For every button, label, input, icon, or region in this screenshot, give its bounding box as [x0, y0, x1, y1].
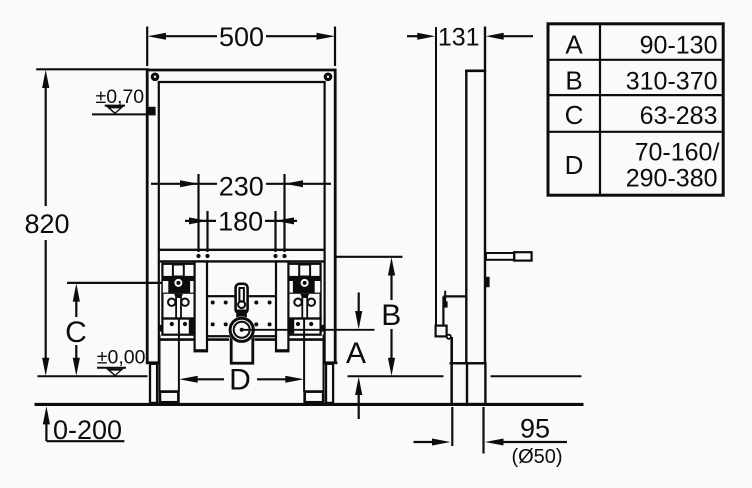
svg-text:D: D [565, 150, 584, 180]
right slide rail [276, 262, 288, 352]
datum line ±0,00 right segment [491, 375, 582, 377]
side view leg box [452, 363, 486, 404]
side view tube top cap [465, 70, 486, 73]
dimension 230 [151, 172, 331, 253]
screw hole top left [151, 73, 160, 82]
svg-text:230: 230 [219, 172, 264, 202]
drain pipe [231, 336, 253, 363]
mounting plate [205, 296, 278, 336]
svg-text:D: D [229, 363, 251, 396]
svg-text:500: 500 [219, 22, 264, 52]
tensioner [236, 284, 248, 318]
side view tube left edge [465, 70, 467, 364]
dimension 0-200 bottom left [43, 406, 125, 445]
svg-text:0-200: 0-200 [53, 415, 122, 445]
frame right tube inner [324, 82, 326, 364]
floor line [35, 403, 584, 406]
datum line ±0,00 middle segment [348, 375, 444, 377]
dimension A [346, 293, 366, 420]
datum line ±0,00 left segment [38, 375, 148, 377]
drain centerline [242, 329, 375, 331]
svg-text:820: 820 [24, 209, 69, 239]
svg-text:70-160/: 70-160/ [635, 138, 720, 166]
dimension 95 [414, 407, 568, 468]
dimension D [179, 363, 304, 396]
side view leg divider [466, 363, 468, 404]
side view bracket top line [443, 295, 466, 297]
frame top rail outer [146, 69, 336, 72]
level mark ±0,70 [92, 86, 147, 115]
level mark ±0,00 [97, 346, 146, 376]
svg-text:63-283: 63-283 [640, 102, 718, 130]
right foot [305, 392, 324, 403]
svg-text:290-380: 290-380 [626, 165, 718, 193]
right bracket body [287, 264, 324, 392]
side view bracket cross tick [444, 291, 446, 306]
side view crossbar end cap [514, 252, 531, 260]
side view crossbar stub [486, 253, 514, 260]
svg-text:180: 180 [218, 206, 263, 236]
left bracket body [159, 264, 196, 392]
svg-text:131: 131 [438, 24, 480, 52]
lower member line [159, 338, 325, 341]
svg-text:A: A [565, 30, 583, 60]
dimension 180 [185, 206, 297, 252]
svg-text:B: B [565, 66, 582, 96]
left tube end cap [146, 361, 160, 364]
right leg [326, 364, 333, 403]
dimension B [337, 257, 403, 376]
side view bracket circle [447, 335, 451, 339]
svg-text:C: C [65, 316, 87, 349]
frame top rail inner [158, 81, 326, 83]
dimension 500 top [147, 22, 335, 66]
left leg [150, 364, 157, 403]
frame left tube inner [158, 82, 160, 364]
dimension 131 side view [407, 24, 533, 52]
side view bracket left edge [442, 296, 444, 326]
svg-text:(Ø50): (Ø50) [511, 446, 562, 468]
dimension C left [65, 283, 172, 376]
svg-text:95: 95 [520, 414, 550, 444]
left foot [160, 392, 179, 403]
crossbar top line [159, 249, 325, 251]
svg-text:±0,70: ±0,70 [96, 86, 145, 108]
crossbar bolts [196, 254, 200, 258]
side view wall line [435, 27, 437, 335]
svg-text:A: A [346, 337, 366, 370]
left slide rail [195, 262, 207, 352]
frame right tube outer [334, 69, 337, 364]
side view bracket black mark [443, 301, 448, 307]
side view small tab [485, 277, 490, 287]
svg-text:90-130: 90-130 [640, 32, 718, 60]
side view bracket square [436, 326, 447, 337]
svg-text:±0,00: ±0,00 [97, 346, 146, 368]
svg-text:C: C [565, 100, 584, 130]
crossbar bottom line [159, 260, 325, 262]
drain circle [228, 316, 255, 343]
frame left tube outer [146, 69, 149, 364]
screw hole top right [324, 73, 333, 82]
right tube end cap [324, 361, 338, 364]
side view tube right edge / extension [484, 27, 486, 364]
wall anchor mark on left tube [147, 107, 155, 116]
side view rear rail line [450, 337, 453, 404]
dimension table [548, 24, 723, 195]
dimension 820 left [24, 69, 149, 376]
svg-text:310-370: 310-370 [626, 68, 718, 96]
side view tube end line [450, 362, 487, 364]
svg-text:B: B [381, 299, 401, 332]
